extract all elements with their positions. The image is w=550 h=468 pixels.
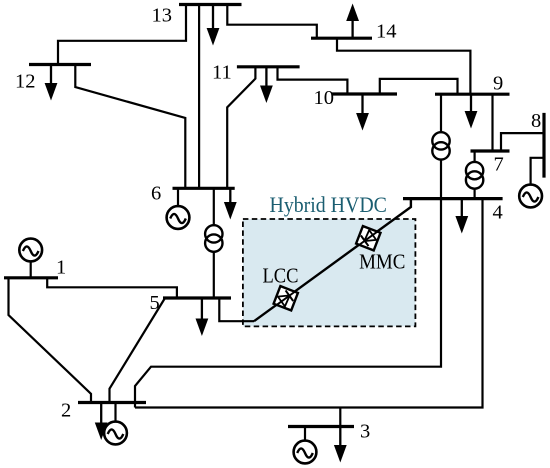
svg-text:12: 12 — [15, 70, 36, 92]
wire 13-12 — [58, 5, 186, 66]
svg-text:6: 6 — [151, 182, 161, 204]
load arrow bus 12 — [45, 65, 58, 101]
up arrow bus 14 — [346, 4, 359, 39]
wire 7-8 — [501, 133, 544, 151]
transformer 9-4 — [432, 132, 449, 159]
svg-text:2: 2 — [61, 400, 71, 422]
wire 5-2 — [110, 298, 166, 403]
HVDC link line LCC-MMC-4 — [254, 199, 411, 322]
generator at bus 2 — [104, 422, 127, 445]
load arrow bus 2 — [95, 403, 108, 441]
svg-text:8: 8 — [531, 110, 541, 132]
generator at bus 8 — [519, 185, 542, 208]
svg-text:7: 7 — [494, 154, 504, 176]
svg-text:LCC: LCC — [263, 264, 299, 288]
bus 14 — [311, 37, 372, 40]
wire junction to bus 3 — [339, 408, 341, 427]
generator stem bus 3 — [304, 427, 306, 441]
svg-text:14: 14 — [376, 21, 397, 43]
generator stem bus 1 — [30, 262, 32, 278]
wire 13-6 — [198, 5, 200, 189]
load arrow bus 6 — [224, 188, 237, 219]
load arrow bus 4 — [455, 199, 468, 234]
svg-text:10: 10 — [314, 87, 335, 109]
svg-text:4: 4 — [493, 202, 503, 224]
bus 7 — [471, 149, 510, 152]
LCC converter — [274, 286, 298, 310]
wire 9-7 — [491, 94, 493, 151]
wire 5-LCC (HVDC ac side) — [219, 298, 254, 321]
wire 13-14 — [227, 5, 316, 39]
wire 6-5 — [213, 188, 215, 298]
generator stem bus 6 — [177, 188, 179, 206]
generator at bus 3 — [294, 441, 317, 464]
MMC converter — [356, 226, 380, 250]
load arrow bus 13 — [207, 5, 220, 46]
wire 4-2 — [135, 199, 441, 408]
load arrow bus 11 — [260, 67, 273, 103]
svg-text:MMC: MMC — [359, 249, 405, 273]
bus 3 — [288, 425, 354, 428]
svg-text:1: 1 — [56, 257, 66, 279]
bus 1 — [4, 276, 58, 279]
load arrow bus 10 — [356, 94, 369, 131]
svg-text:11: 11 — [212, 61, 232, 83]
transformer 6-5 — [205, 225, 222, 252]
bus 4 — [403, 197, 503, 200]
generator stem bus 2 — [114, 403, 116, 422]
load arrow bus 9 — [465, 94, 478, 128]
wire 4-3-2 — [135, 199, 483, 408]
load arrow bus 5 — [196, 298, 209, 336]
svg-text:9: 9 — [493, 73, 503, 95]
bus 10 — [332, 92, 397, 95]
wire 1-2 — [9, 278, 92, 403]
wire 14-9 — [337, 38, 470, 94]
wire 11-6 — [227, 67, 255, 189]
wire 7-4 with transformer — [474, 151, 476, 199]
bus 6 — [173, 187, 235, 190]
wire 1-5 — [47, 278, 177, 298]
wire 11-10 — [278, 67, 348, 94]
bus 11 — [237, 65, 300, 68]
bus 13 — [179, 3, 242, 6]
wire 10-9 — [380, 79, 458, 94]
generator at bus 1 — [19, 239, 42, 262]
HVDC dashed box — [243, 219, 416, 326]
bus 5 — [163, 296, 231, 299]
svg-text:3: 3 — [360, 421, 370, 443]
transformer 7-4 — [466, 162, 483, 189]
load arrow bus 3 — [334, 427, 347, 463]
wire 8-generator — [531, 158, 544, 185]
wire 9-4 with transformer stem — [440, 94, 442, 198]
bus 8 (vertical bar) — [542, 113, 545, 178]
svg-text:13: 13 — [152, 5, 173, 27]
svg-text:Hybrid HVDC: Hybrid HVDC — [270, 192, 387, 217]
wire 12-6 — [75, 65, 185, 189]
bus 9 — [435, 93, 510, 96]
generator at bus 6 — [167, 206, 190, 229]
bus 12 — [29, 63, 91, 66]
bus 2 — [78, 401, 146, 404]
